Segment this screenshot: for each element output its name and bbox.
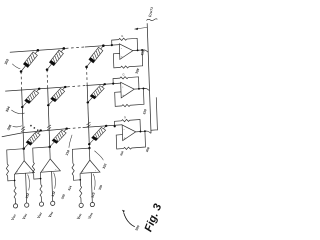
svg-text:G: G xyxy=(124,115,126,119)
svg-text:+: + xyxy=(82,169,84,173)
svg-text:+: + xyxy=(124,136,126,140)
svg-text:G: G xyxy=(122,72,124,76)
svg-text:+: + xyxy=(122,93,124,97)
svg-text:G: G xyxy=(121,34,123,38)
svg-text:+: + xyxy=(16,170,18,174)
svg-text:+: + xyxy=(121,55,123,59)
svg-text:+: + xyxy=(42,168,44,172)
